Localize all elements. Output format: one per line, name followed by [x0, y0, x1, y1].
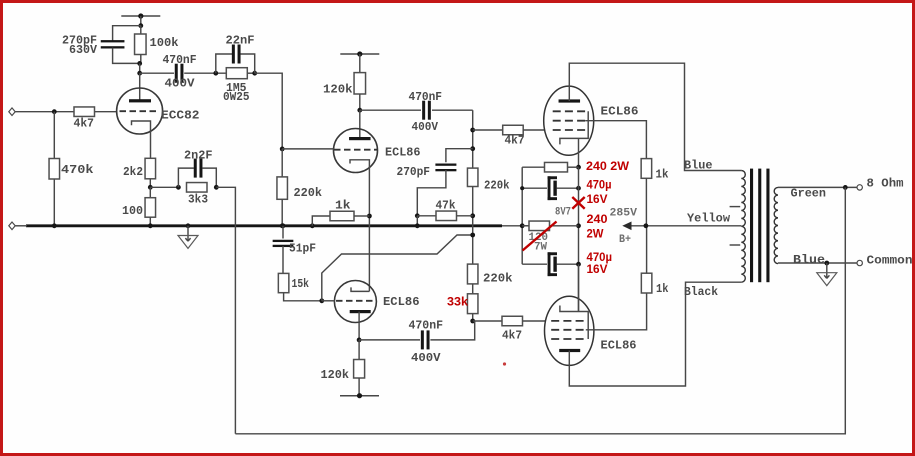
- transformer core laminations: [750, 169, 753, 283]
- svg-text:1k: 1k: [335, 200, 351, 213]
- svg-text:100: 100: [122, 205, 143, 218]
- node B+ cathode mid: [520, 223, 525, 228]
- svg-text:ECL86: ECL86: [383, 296, 420, 309]
- resistor 4k7 input: [74, 107, 95, 117]
- svg-text:470nF: 470nF: [409, 91, 443, 104]
- node feedback net right: [214, 185, 219, 190]
- ground symbol main rail: [186, 223, 191, 228]
- svg-text:4k7: 4k7: [502, 330, 522, 343]
- resistor 120k lower: [358, 340, 360, 360]
- ECL86 lower triode grid dashed: [336, 300, 375, 302]
- ECL86 pentode lower anode: [559, 349, 580, 352]
- svg-text:2n2F: 2n2F: [184, 150, 213, 163]
- wire 120k to anode: [359, 94, 361, 110]
- capacitor 470u 16V lower electrolytic: [522, 263, 547, 265]
- ECC82 cathode: [132, 121, 151, 158]
- wire 47k node to rail: [416, 216, 418, 226]
- resistor 4k7 upper grid stopper: [473, 129, 503, 131]
- ECL86 upper triode cathode: [350, 160, 369, 292]
- ground symbol output: [826, 263, 828, 278]
- node 100k bottom: [137, 61, 142, 66]
- resistor 1k screen upper: [641, 159, 652, 179]
- svg-text:470µ: 470µ: [587, 252, 613, 264]
- wire lower grid lead: [322, 300, 335, 302]
- wire anode lead ECC82: [139, 73, 141, 101]
- ECC82 grid dashed: [120, 110, 158, 112]
- node 47k left: [415, 213, 420, 218]
- capacitor 470u 16V upper electrolytic: [522, 187, 547, 189]
- node B+ junction: [644, 223, 649, 228]
- wire input1 to grid: [15, 111, 74, 113]
- wire grid lead: [282, 148, 334, 150]
- capacitor 270pF splitter: [446, 149, 473, 163]
- wire grid column upper: [472, 110, 474, 168]
- wire 2k2 to node: [149, 179, 151, 188]
- node cathode divider: [148, 185, 153, 190]
- svg-text:51pF: 51pF: [289, 243, 316, 256]
- svg-text:120k: 120k: [323, 84, 353, 97]
- node lower grid junction: [319, 298, 324, 303]
- wire rail thin continuation: [502, 225, 529, 227]
- svg-text:ECL86: ECL86: [601, 340, 637, 353]
- wire to coupling cap 470nF: [140, 72, 174, 74]
- capacitor 470nF 400V lower: [359, 339, 420, 341]
- svg-text:240 2W: 240 2W: [586, 161, 629, 173]
- red dot mark: [503, 362, 506, 365]
- ECL86 pentode lower cathode and g3 tie: [560, 306, 588, 340]
- ECL86 pentode upper anode: [559, 99, 581, 102]
- transformer primary winding: [741, 171, 745, 283]
- node 1M5 right: [252, 71, 257, 76]
- wire grid from 1M5 node: [255, 73, 283, 149]
- node feedback net left: [176, 185, 181, 190]
- wire 270pF bottom branch: [113, 48, 140, 64]
- wire lower anode lead: [358, 312, 360, 340]
- wire g2 lower to 1k: [586, 293, 647, 330]
- red slash over 120 7W: [523, 222, 557, 251]
- node cathode top: [576, 165, 581, 170]
- svg-text:630V: 630V: [69, 44, 97, 57]
- svg-text:Yellow: Yellow: [687, 213, 730, 226]
- resistor 1M5 0W25: [226, 68, 247, 79]
- wire lower anode to transformer black: [569, 282, 741, 386]
- node splitter anode tap: [357, 108, 362, 113]
- svg-text:Blue: Blue: [684, 160, 713, 173]
- wire cathode lead: [578, 138, 580, 167]
- svg-text:16V: 16V: [587, 264, 608, 276]
- svg-text:16V: 16V: [587, 194, 608, 206]
- svg-text:4k7: 4k7: [74, 118, 95, 131]
- svg-text:33k: 33k: [447, 297, 469, 309]
- wire 1k to B+ node: [645, 178, 647, 226]
- node lower anode tap: [357, 338, 362, 343]
- wire coupling cap 470nF upper: [360, 109, 421, 111]
- svg-text:ECL86: ECL86: [601, 106, 639, 119]
- wire stub to anode network: [140, 16, 142, 26]
- svg-text:8V7: 8V7: [555, 207, 571, 219]
- node Common terminal: [857, 260, 862, 265]
- tube ECL86 triode lower envelope: [334, 281, 376, 323]
- svg-text:470nF: 470nF: [163, 54, 197, 67]
- ECL86 pentode upper cathode and g3 tie: [560, 111, 588, 144]
- node feedback join: [470, 233, 475, 238]
- wire stub to 120k: [359, 54, 361, 73]
- node lower drive: [470, 319, 475, 324]
- node 270pF tap: [470, 146, 475, 151]
- svg-text:0W25: 0W25: [223, 91, 250, 104]
- capacitor 470nF 400V upper: [422, 101, 425, 120]
- node input 1 terminal: [9, 108, 15, 116]
- tube ECL86 pentode upper envelope: [544, 86, 594, 155]
- svg-text:100k: 100k: [150, 37, 179, 50]
- wire 470k branch: [53, 112, 55, 159]
- tube ECL86 triode upper envelope: [334, 129, 378, 173]
- svg-text:Blue: Blue: [793, 254, 825, 267]
- resistor 47k: [417, 215, 436, 217]
- svg-text:47k: 47k: [436, 200, 456, 213]
- ECL86 pentode lower grids dashed: [551, 320, 586, 322]
- resistor 15k: [278, 273, 289, 292]
- wire secondary blue to common: [778, 262, 857, 264]
- wire ground rail thick: [26, 224, 502, 227]
- svg-text:270pF: 270pF: [397, 166, 431, 179]
- wire anode node: [139, 63, 141, 73]
- svg-text:120k: 120k: [321, 369, 350, 382]
- resistor 100k: [140, 26, 142, 34]
- node 47k join: [470, 213, 475, 218]
- node 8 Ohm junction: [843, 185, 848, 190]
- wire left bias rail: [521, 167, 523, 264]
- svg-text:220k: 220k: [483, 273, 513, 286]
- ECL86 upper triode anode: [349, 137, 371, 140]
- node 4k7 upper tap: [470, 128, 475, 133]
- wire 270pF top branch: [113, 26, 141, 41]
- svg-text:400V: 400V: [165, 78, 195, 91]
- resistor 33k: [472, 284, 474, 294]
- svg-text:1k: 1k: [656, 169, 669, 182]
- svg-text:Common: Common: [867, 255, 913, 268]
- svg-text:400V: 400V: [411, 352, 441, 365]
- HT supply stub 120k upper: [340, 53, 379, 55]
- HT supply stub top-left: [121, 15, 160, 17]
- ECL86 pentode upper grids dashed: [553, 110, 586, 112]
- svg-text:2W: 2W: [587, 229, 604, 241]
- node input junction: [52, 109, 57, 114]
- svg-text:285V: 285V: [610, 208, 638, 220]
- ECL86 upper triode grid dashed: [334, 149, 377, 151]
- wire feedback to bottom loop: [216, 187, 235, 433]
- svg-text:Green: Green: [791, 188, 827, 201]
- node common ground junction: [824, 261, 829, 266]
- node 8 Ohm terminal: [857, 185, 862, 190]
- svg-text:ECC82: ECC82: [161, 110, 200, 123]
- resistor 120 7W crossed out: [522, 225, 529, 227]
- resistor 1k screen lower: [641, 273, 652, 293]
- resistor 2k2: [145, 158, 156, 179]
- svg-text:220k: 220k: [294, 187, 323, 200]
- supply stub bottom: [340, 395, 379, 397]
- svg-text:ECL86: ECL86: [385, 147, 421, 160]
- wire secondary green to 8 Ohm: [778, 186, 857, 188]
- resistor 470k: [49, 159, 60, 180]
- node common cathode: [367, 214, 372, 219]
- svg-text:8 Ohm: 8 Ohm: [867, 178, 904, 191]
- wire anode to transformer blue: [569, 63, 741, 170]
- svg-text:3k3: 3k3: [188, 194, 208, 207]
- resistor 3k3: [187, 183, 208, 193]
- node 470k to ground rail: [52, 223, 57, 228]
- wire cathode to feedback network: [150, 186, 178, 188]
- wire feedback loop right and bottom: [235, 187, 845, 433]
- ECL86 lower triode anode: [350, 310, 371, 313]
- node coupling tap: [137, 71, 142, 76]
- node anode network top: [138, 23, 143, 28]
- resistor 1k cathode: [310, 223, 315, 228]
- svg-text:240: 240: [587, 214, 608, 226]
- resistor 4k7 lower grid stopper: [473, 320, 502, 322]
- capacitor 51pF: [281, 223, 286, 228]
- node 220k to rail: [280, 223, 285, 228]
- svg-text:470nF: 470nF: [409, 320, 444, 333]
- tube ECL86 pentode lower envelope: [545, 296, 594, 365]
- capacitor 2n2F: [178, 168, 194, 187]
- wire feedback diagonal to grid: [322, 235, 473, 301]
- svg-text:470k: 470k: [61, 164, 94, 177]
- svg-text:400V: 400V: [412, 121, 439, 134]
- resistor 100: [149, 187, 151, 197]
- node 1M5 left: [213, 71, 218, 76]
- primary tap marks: [730, 206, 741, 208]
- resistor 220k upper column: [467, 168, 478, 186]
- svg-text:15k: 15k: [292, 278, 310, 291]
- wire 1k lower to B+ node: [646, 226, 648, 273]
- svg-text:2k2: 2k2: [123, 166, 143, 179]
- capacitor 22nF bypass: [216, 54, 232, 73]
- wire column crossing rail: [472, 187, 474, 265]
- resistor 240 2W upper (cathode): [568, 166, 579, 168]
- wire cap to 1M5 node: [184, 72, 226, 74]
- svg-text:4k7: 4k7: [505, 135, 525, 148]
- svg-text:Black: Black: [684, 286, 718, 299]
- tube ECC82 triode envelope: [117, 88, 163, 134]
- wire 470nF to grid column: [432, 109, 473, 111]
- wire B+ from yellow tap: [631, 225, 741, 227]
- svg-text:1k: 1k: [656, 283, 669, 296]
- svg-text:7W: 7W: [534, 242, 547, 254]
- capacitor 470nF 400V coupling: [175, 64, 178, 83]
- node input 2 terminal: [9, 222, 15, 230]
- B+ arrowhead: [622, 222, 631, 231]
- svg-text:B+: B+: [619, 234, 631, 246]
- capacitor 270pF 630V: [101, 40, 125, 42]
- resistor 120k upper: [354, 73, 366, 94]
- transformer secondary winding: [774, 187, 778, 263]
- svg-text:22nF: 22nF: [226, 35, 255, 48]
- node 100 to rail: [148, 223, 153, 228]
- svg-text:470µ: 470µ: [587, 180, 612, 192]
- wire g2 to 1k: [585, 121, 646, 159]
- resistor 220k grid: [281, 149, 283, 177]
- ECL86 lower triode cathode: [351, 287, 369, 291]
- svg-text:220k: 220k: [484, 180, 510, 193]
- wire 33k to node: [472, 314, 474, 321]
- wire center cathode rail: [578, 167, 580, 311]
- node grid 220k junction: [280, 147, 285, 152]
- resistor 220k lower column: [467, 264, 478, 284]
- wire 1M5 right: [247, 72, 254, 74]
- op ECC82 anode: [129, 99, 151, 102]
